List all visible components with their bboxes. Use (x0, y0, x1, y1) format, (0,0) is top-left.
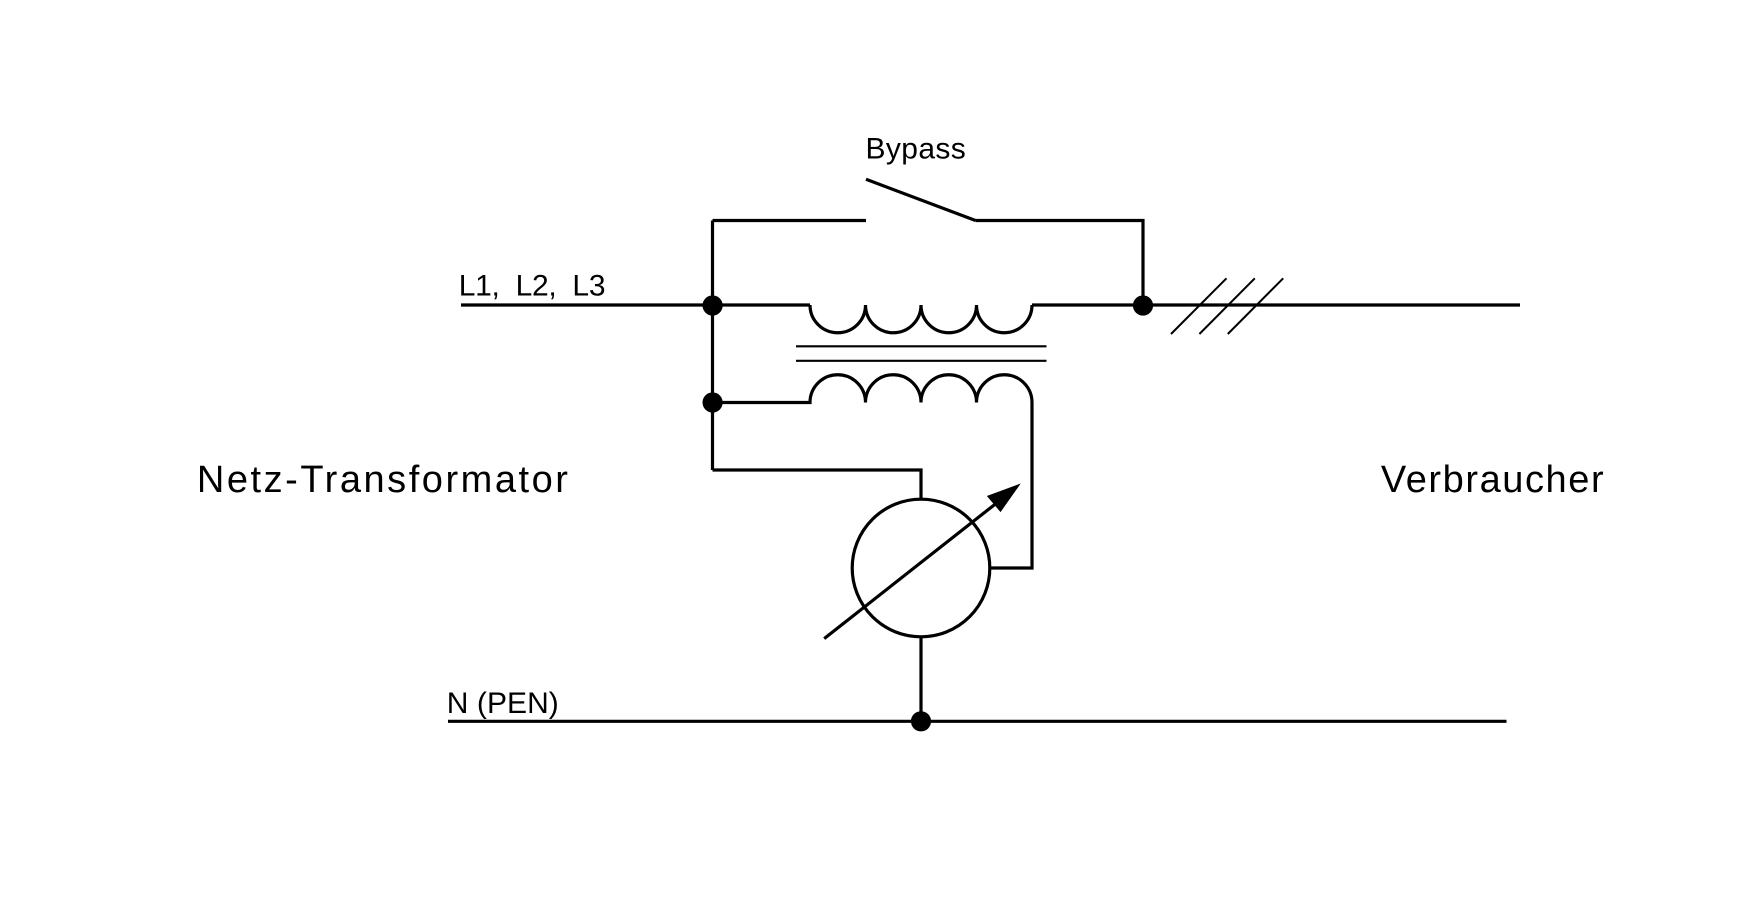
junction node C (1133, 295, 1153, 315)
winding secondary W2 (713, 375, 1033, 403)
wire bypass right segment (976, 221, 1144, 306)
wire secondary right drop (990, 403, 1032, 569)
svg-text:Verbraucher: Verbraucher (1381, 459, 1604, 501)
wire bypass left riser (713, 219, 867, 222)
variable autotransformer U1 circle (852, 499, 990, 637)
wire vertical node A to bend (711, 221, 714, 471)
wire bend to regulator top (713, 470, 922, 499)
svg-text:L1, L2, L3: L1, L2, L3 (459, 269, 606, 302)
arrow head of U1 (988, 485, 1020, 512)
svg-text:Netz-Transformator: Netz-Transformator (197, 459, 568, 501)
wire L1,L2,L3 left segment (461, 303, 810, 306)
three-phase slash 2 (1199, 278, 1254, 334)
wire regulator bottom stem (919, 637, 922, 722)
junction node A (703, 295, 723, 315)
arrow shaft of U1 (824, 503, 997, 639)
three-phase slash 1 (1171, 278, 1227, 334)
junction node D (911, 711, 931, 731)
wire L1,L2,L3 right segment (1032, 303, 1520, 306)
svg-text:Bypass: Bypass (866, 133, 966, 166)
svg-text:N (PEN): N (PEN) (447, 687, 559, 720)
core transformer T1 (796, 346, 1047, 361)
winding primary W1 (810, 305, 1032, 333)
junction node B (703, 392, 723, 412)
switch S1 blade (866, 179, 976, 220)
three-phase slash 3 (1228, 278, 1283, 334)
wire N (PEN) (448, 720, 1507, 723)
